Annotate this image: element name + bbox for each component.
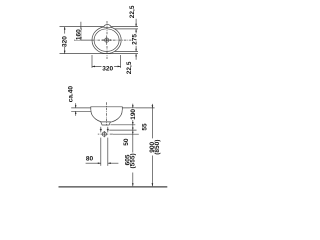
dim 320 bottom	[91, 55, 93, 68]
ca.40 dim : line x=75.7	[75, 103, 77, 108]
svg-text:320: 320	[61, 36, 68, 47]
svg-text:55: 55	[141, 123, 148, 131]
320 left	[61, 34, 67, 47]
dim col right top view : line x=136.1	[135, 19, 137, 27]
ext line outer top	[60, 26, 139, 28]
svg-text:190: 190	[130, 109, 137, 120]
horizontal centerline	[74, 39, 92, 41]
svg-text:22,5: 22,5	[129, 5, 136, 18]
drain symbol side view	[102, 132, 106, 136]
trapezoid drain flange	[101, 122, 111, 125]
svg-text:320: 320	[102, 66, 113, 73]
320 bottom	[102, 65, 115, 71]
side centerline	[106, 102, 108, 125]
outer circle	[92, 27, 121, 54]
counter right	[122, 107, 154, 109]
svg-text:22,5: 22,5	[126, 61, 133, 74]
rim	[91, 107, 123, 111]
inner circle	[94, 29, 119, 52]
160	[75, 29, 81, 40]
svg-text:ca.40: ca.40	[68, 86, 75, 103]
svg-text:(850): (850)	[154, 140, 161, 155]
svg-text:80: 80	[86, 155, 94, 162]
ext line inner bottom	[115, 51, 138, 53]
900 (850)	[149, 139, 160, 155]
bowl	[91, 110, 122, 122]
ext lines right of symbols	[111, 124, 136, 126]
dim 320 left : line x=64.7	[64, 27, 66, 54]
dim 160 : line x=80.9	[80, 22, 82, 40]
vertical centerline	[106, 21, 108, 34]
ext line inner top	[115, 28, 138, 30]
dim col x=132.8 : 190 / 55 / 50 / 605(555)	[132, 104, 134, 109]
275	[131, 33, 138, 45]
counter left	[71, 107, 91, 109]
svg-text:(555): (555)	[129, 153, 136, 168]
supply pipes	[100, 138, 102, 166]
190	[130, 108, 136, 120]
svg-text:275: 275	[132, 34, 139, 45]
dim col x=152.4 : 900(850)	[151, 104, 153, 138]
supply diamonds	[100, 128, 102, 131]
floor line	[59, 186, 168, 188]
drain symbol top view	[105, 38, 109, 42]
tap hole bump	[104, 25, 111, 28]
svg-text:160: 160	[75, 29, 82, 40]
svg-text:50: 50	[123, 138, 130, 146]
605 (555)	[124, 153, 135, 169]
dim 80	[86, 162, 101, 164]
ext line outer bottom	[60, 53, 139, 55]
